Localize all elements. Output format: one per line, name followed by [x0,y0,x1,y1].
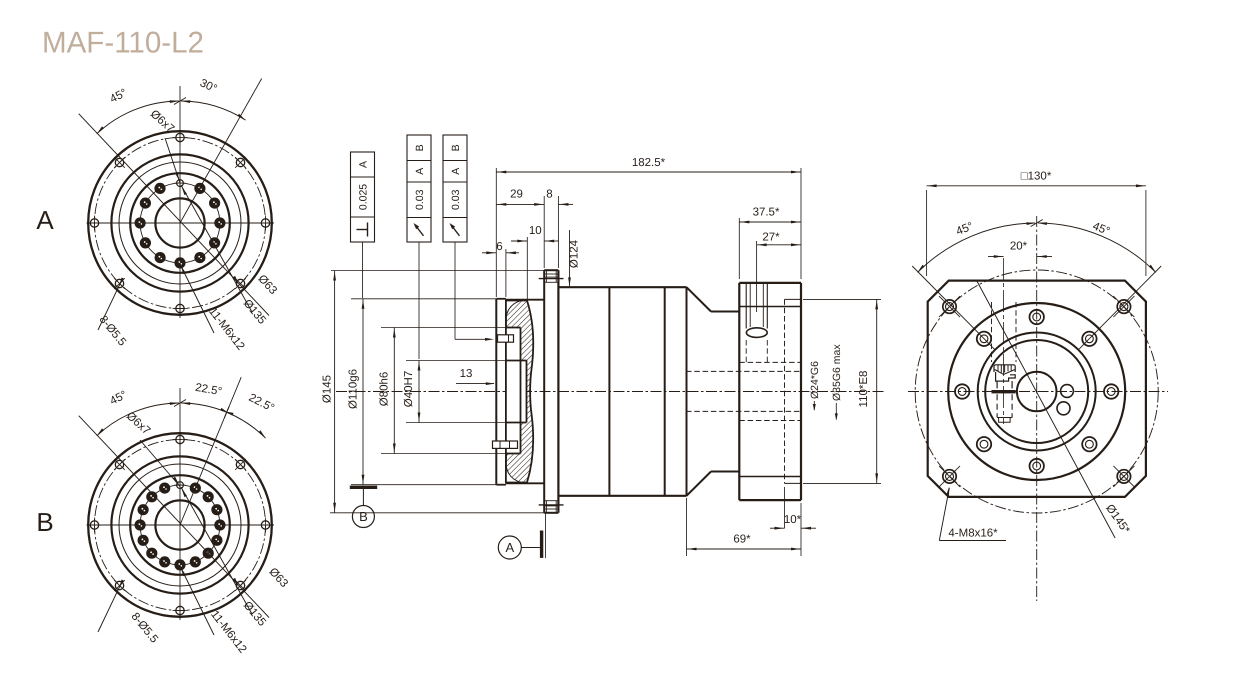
boss circle edge top [739,306,801,308]
svg-text:Ø24*G6: Ø24*G6 [809,361,821,399]
cylinder right face [686,287,688,496]
view B center bore D40 [155,500,204,549]
view B radial line 67.5deg [180,377,241,525]
view A arrow at pin hole [182,187,187,196]
right view horizontal centerline [908,391,1168,393]
view B arc tick at vertical [174,400,186,407]
view B 22.5deg dimension arc 1 [181,403,226,412]
view B outer hole D5.5 at -45deg [235,580,246,591]
bolt counterbore right wall [766,283,768,329]
view B arrow tip at top pin hole [173,477,179,485]
view A vertical centerline [179,86,181,318]
view B tapped hole M6 at -247.5deg [159,483,170,494]
leader D145* diagonal [977,281,1115,538]
view A tapped hole M6 at -240.0deg [154,183,165,194]
svg-text:B: B [450,144,462,151]
face hole at -135deg on D88 circle [977,437,991,451]
view B arc arrow left end [97,428,104,435]
plate bottom rim groove lines [544,500,558,502]
svg-text:27*: 27* [762,232,780,244]
svg-text:Ø40H7: Ø40H7 [403,371,415,407]
view A bolt circle D135 dash-dot [95,138,266,309]
view B arrow at lower-left D5.5 hole [119,580,124,589]
view A arc arrow right end [237,114,245,120]
recess D110E8 bottom edge [785,482,802,484]
view A outer hole D5.5 at 90deg [173,130,188,145]
view B tapped hole M6 at 67.5deg [190,483,201,494]
svg-text:8: 8 [546,189,552,201]
view B tapped hole M6 at -45.0deg [203,548,214,559]
view B bolt circle D135 dash-dot [95,440,266,611]
view B pin hole D6x7 at top of inner bolt circle [175,480,186,491]
view A outer hole D5.5 at -90deg [173,301,188,316]
top chamfer arc [506,301,522,319]
output spigot bottom edge [496,484,506,486]
hub body bottom edge [506,482,544,484]
dimension 6 [505,249,507,297]
view A outer hole D5.5 at 0deg [258,216,273,231]
svg-text:0.025: 0.025 [358,184,370,210]
view A tapped hole M6 at -150.0deg [140,237,151,248]
hidden bore D24 dashed bottom [686,410,801,412]
bolt hole thread hidden continuation below [745,340,747,364]
view A arc arrow left end [97,126,104,133]
keyway bottom line [997,417,1012,419]
right arc arrow at vertical left side [1026,222,1035,225]
view A outer hole D5.5 at -135deg [114,278,125,289]
bore D80 bottom edge [506,453,521,455]
view A tapped hole M6 at -60.0deg [194,252,205,263]
view B tapped hole M6 at -180.0deg [135,519,146,530]
svg-text:B: B [359,509,368,524]
view A leader line D135 [181,185,252,312]
bore D40 top edge [506,360,527,362]
bore D40 right face [526,361,528,423]
view B outer hole D5.5 at -225deg [114,459,125,470]
view A inner bolt circle D63 [140,183,220,263]
view A tapped hole M6 at -120.0deg [155,252,166,263]
section axis centerline [336,391,886,393]
keyway slot hidden lines above [991,302,993,362]
view B horizontal centerline [87,524,275,526]
clamp nut walls [996,381,998,388]
cone top [687,287,712,311]
corner hole M8 at corner (-1,-1) [939,296,960,317]
svg-text:Ø80h6: Ø80h6 [379,372,391,407]
top chamfer white cutout [506,301,522,319]
svg-text:A: A [414,168,426,175]
bore D80 top edge [506,327,521,329]
face hole at -225deg on D88 circle [977,332,991,346]
view A arc arrow at vertical left side [170,100,179,103]
view B tapped hole M6 at -225.0deg [146,491,157,502]
corner hole M8 at corner (-1,1) [939,466,960,487]
svg-text:0.03: 0.03 [414,189,426,210]
svg-text:Ø145: Ø145 [322,375,334,403]
view B arc arrow right end [258,430,265,438]
view B tapped hole M6 at -90.0deg [174,559,185,570]
datum A symbol [498,513,545,559]
input flange bottom edge [739,499,801,501]
bore D80 white cutout [506,328,521,454]
view A thin circle [119,162,241,284]
plate top rim groove lines [544,273,558,275]
view A arrow at bolt hole on D135 [233,276,238,285]
view A outer hole D5.5 at 45deg [235,157,246,168]
dimension 27* [756,241,758,312]
svg-text:69*: 69* [733,534,751,546]
view B vertical centerline [179,388,181,620]
view B outer hole D5.5 at -180deg [87,518,102,533]
view B tapped hole M6 at -157.5deg [138,535,149,546]
svg-text:B: B [36,507,53,537]
view A arrow at lower-left D5.5 hole [119,278,124,287]
hidden bore D35 dashed top [739,361,801,363]
output spigot top edge [496,298,506,300]
view A circle D80 [130,173,230,273]
view A leader line D63 (133deg diagonal through center) [79,114,269,316]
recess hidden face dashed [784,299,786,483]
svg-text:13: 13 [460,368,473,380]
bottom chamfer white cutout [506,465,522,483]
key cross-section bar [992,390,1016,393]
view B arc tick at 67.5deg [224,407,229,418]
cylinder joint line 2 [664,287,666,496]
view B leader line D135 [181,487,252,614]
right arc arrow left [918,265,925,273]
view B inner bolt circle D63 [140,485,220,565]
view A arrow tip at top pin hole [175,172,179,181]
view B 22.5deg dimension arc 2 [227,413,265,439]
right arc arrow right [1149,265,1156,273]
GD&T frame 2 leader [418,242,420,359]
view B arrow at pin hole [182,489,187,498]
view B circle D80 [130,475,230,575]
45deg construction line up-left [912,266,994,349]
view B leader line D6x7 [140,440,180,487]
svg-text:4-M8x16*: 4-M8x16* [948,528,998,540]
dimension square 130* [926,190,928,276]
svg-text:37.5*: 37.5* [753,207,780,219]
dimension 29 [543,196,545,268]
round plate top edge [544,269,558,271]
view A 30deg dimension arc [181,101,246,120]
motor cylinder D124 bottom edge [558,495,686,497]
view B outer hole D5.5 at -135deg [114,580,125,591]
shaft bore circle [1017,372,1057,412]
svg-text:6: 6 [496,241,502,253]
dimension D80h6 [381,327,505,329]
view B arc arrow at vertical right side [181,402,190,405]
view A arc arrow at vertical right side [181,100,190,103]
svg-text:B: B [414,144,426,151]
svg-text:0.03: 0.03 [450,189,462,210]
view B arc arrow at 67.5 right side [220,408,229,413]
view B tapped hole M6 at -135.0deg [146,548,157,559]
hidden bore D24 dashed top [686,370,801,372]
view A outer flange circle D145 [88,131,272,315]
view A tapped hole M6 at 0.0deg [214,217,225,228]
GD&T frame perpendicularity 0.025 A [351,152,375,242]
view A tapped hole M6 at -30.0deg [209,237,220,248]
clamp screw stepped body [996,372,1016,381]
face hole at -90deg on D88 circle [1030,459,1044,473]
dimension 10 [526,237,528,300]
pilot circle inner [985,340,1088,443]
view B leader line 11-M6x12 [180,566,214,635]
view B tapped hole M6 at -112.5deg [159,556,170,567]
right view 45deg arc right [1038,223,1156,272]
view B tapped hole M6 at -22.5deg [211,535,222,546]
GD&T frame 3 leader [454,242,456,339]
motor cylinder D124 top edge [558,286,686,288]
hidden bore D35 dashed bottom [739,420,801,422]
keyway centerline [1003,258,1005,424]
svg-text:A: A [505,540,514,555]
dimension 10* [784,487,786,528]
svg-text:10: 10 [529,225,542,237]
input flange left face [738,283,740,500]
right arc arrow at vertical right side [1038,222,1047,225]
view A leader line 11-M6x12 [180,264,214,333]
view B tapped hole M6 at -67.5deg [190,556,201,567]
output spigot D110g6 left face [495,299,497,485]
dimension D145 [331,270,544,272]
label 4-M8x16* [939,488,949,541]
view B arc arrow at 67.5 left side [225,411,234,415]
gasket tick bottom [539,504,564,506]
corner hole M8 at corner (1,1) [1113,466,1134,487]
dimension 182.5* [495,168,497,297]
view A tapped hole M6 at -90.0deg [174,257,185,268]
view B 133deg diagonal through center and D63 leader [79,416,269,618]
view A outer hole D5.5 at -45deg [235,278,246,289]
view A circle D110 spigot [111,154,248,291]
big boss circle [948,303,1125,480]
label D124 with leader [569,230,571,286]
svg-text:Ø124: Ø124 [569,239,581,268]
dimension 13 leader [456,383,494,385]
bore D80 right face [520,328,522,454]
svg-text:29: 29 [510,189,523,201]
bore D40 bottom edge [506,422,527,424]
view A outer hole D5.5 at -180deg [87,216,102,231]
view A tapped hole M6 at -210.0deg [140,198,151,209]
dimension 110*E8 [803,298,881,300]
bottom chamfer arc [506,465,522,483]
45deg construction line up-right [1079,266,1161,349]
input flange right face [800,283,802,500]
pin hole stub top [498,335,514,342]
plate inner verticals bottom [545,501,547,513]
GD&T frame runout 0.03 A B (right) [443,135,467,242]
dimension D40H7 [406,360,505,362]
face hole at -45deg on D88 circle [1082,437,1096,451]
view A tapped hole M6 at -180.0deg [135,217,146,228]
svg-text:Ø110g6: Ø110g6 [348,369,360,409]
view B thin circle [119,464,241,586]
view B 45deg dimension arc [97,403,179,436]
svg-text:110*E8: 110*E8 [858,371,870,408]
corner hole M8 at corner (1,-1) [1113,296,1134,317]
hub body top edge [506,299,544,301]
view A pin hole D6x7 at top of inner bolt circle [175,178,186,189]
view A horizontal centerline [87,222,275,224]
right view 45deg arc left [918,223,1036,272]
bolt hole thread minor lines [749,283,751,327]
dimension 8 [557,196,559,268]
face hole at 90deg on D88 circle [1030,310,1044,324]
view A radial line 60deg for 30deg dimension [180,79,262,224]
svg-text:20*: 20* [1010,241,1028,253]
view B outer hole D5.5 at 90deg [173,432,188,447]
view A leader line 8-D5.5 [98,284,120,330]
view B leader line 8-D5.5 [98,586,120,632]
svg-text:10*: 10* [784,514,802,526]
svg-text:Ø35G6 max: Ø35G6 max [831,344,843,401]
GD&T frame runout 0.03 A B (left) [407,135,431,242]
cone bottom [687,472,712,496]
view B circle D110 spigot [111,456,248,593]
neck top edge [711,311,739,313]
svg-text:A: A [450,168,462,175]
clamp screw detail crown (socket head) [994,365,1015,375]
view B tapped hole M6 at 45.0deg [203,491,214,502]
neck bottom edge [711,471,739,473]
plate inner verticals top [545,270,547,282]
boss circle edge bottom [739,476,801,478]
hub outline [506,301,533,483]
view B tapped hole M6 at 0.0deg [214,519,225,530]
view B arrow at bolt hole on D135 [233,578,238,587]
view A tapped hole M6 at 30.0deg [209,198,220,209]
view B outer hole D5.5 at 45deg [235,459,246,470]
view A center bore D40 [155,198,204,247]
small hole 2 near bore [1057,402,1070,415]
hub section hatched region [506,301,533,483]
pin hole stub bottom [493,441,518,448]
view B tapped hole M6 at -202.5deg [138,504,149,515]
svg-text:A: A [36,205,54,235]
view B arrow at bottom M6 hole [181,568,186,577]
right arc tick at vertical [1031,220,1043,227]
view B outer hole D5.5 at -90deg [173,603,188,618]
view B outer hole D5.5 at 0deg [258,518,273,533]
view B arc arrow at vertical left side [170,402,179,405]
face hole at 0deg on D88 circle [1104,384,1118,398]
svg-text:182.5*: 182.5* [632,157,666,169]
cylinder joint line 1 [608,287,610,496]
dimension 20* [988,256,1004,258]
dimension 69* [686,498,688,556]
small hole 1 near bore [1061,385,1074,398]
hub body shoulder face [505,300,507,484]
face hole at -180deg on D88 circle [955,384,969,398]
face hole at 45deg on D88 circle [1082,332,1096,346]
view B outer flange circle D145 [88,433,272,617]
recess D110E8 top edge [785,298,802,300]
datum B symbol [350,486,377,528]
view A outer hole D5.5 at -225deg [114,157,125,168]
svg-text:MAF-110-L2: MAF-110-L2 [42,27,204,60]
view A tapped hole M6 at 60.0deg [194,183,205,194]
view A arc tick at vertical [174,98,186,105]
round plate bottom edge [544,512,558,514]
bolt circle D145 dash-dot [915,270,1158,513]
dimension D110g6 [351,298,496,300]
square flange outline with chamfered corners [928,281,1146,497]
right view vertical centerline [1036,216,1038,601]
gasket tick top [539,278,564,280]
keyway hidden walls dashed [996,394,998,417]
round plate D145 right face [557,270,559,513]
keyway bottom stub [999,418,1011,423]
svg-text:□130*: □130* [1021,171,1052,183]
view A leader line D6x7 [165,138,180,183]
bore D40 white cutout [506,361,527,423]
dimension 37.5* [738,218,740,279]
pilot circle outer [978,333,1096,451]
view A arrow at bottom M6 hole [181,266,186,275]
round plate D145 left face [543,270,545,513]
view B tapped hole M6 at 22.5deg [211,504,222,515]
bolt hole bottom ellipse [746,328,767,338]
bolt counterbore left wall [745,283,747,329]
svg-text:A: A [358,161,370,168]
input flange top edge [739,282,801,284]
GD&T frame 1 leader [362,242,364,298]
view A 45deg dimension arc [97,101,179,134]
